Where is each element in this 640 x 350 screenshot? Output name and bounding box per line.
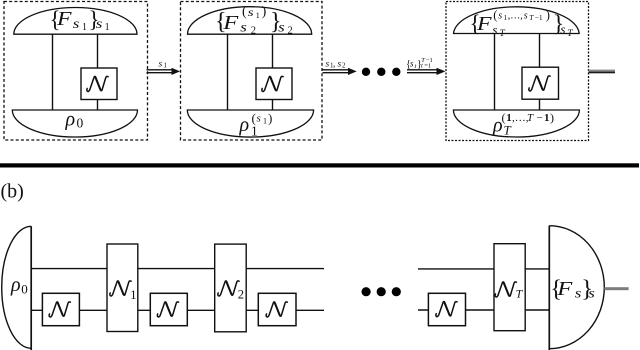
svg-text:): ) xyxy=(550,110,554,124)
label rho_0 (b) xyxy=(10,274,28,297)
svg-text:,: , xyxy=(333,59,335,69)
arrow {s_t} between dots and box3 xyxy=(406,57,446,75)
wire right lower 3 xyxy=(539,99,541,110)
instrument lens 1 (top half-ellipse) xyxy=(14,7,137,34)
channel N small 4 xyxy=(428,293,465,325)
script N label 1 xyxy=(87,76,108,91)
svg-text:s: s xyxy=(73,17,80,32)
svg-text:1: 1 xyxy=(105,22,110,33)
wire top left segment xyxy=(31,268,324,270)
svg-text:F: F xyxy=(556,278,573,300)
label rho_0 xyxy=(65,109,84,131)
arrow s1,s2 between box2 and dots xyxy=(323,59,357,75)
svg-text:): ) xyxy=(262,4,267,19)
state rho0 D-shape xyxy=(2,226,31,348)
svg-text:,…,: ,…, xyxy=(508,10,523,21)
svg-text:(: ( xyxy=(502,110,506,124)
svg-text:(: ( xyxy=(242,4,247,19)
channel box N 1 xyxy=(81,68,117,100)
svg-text:1: 1 xyxy=(256,10,260,20)
svg-text:0: 0 xyxy=(21,282,28,297)
svg-text:T: T xyxy=(567,29,573,39)
svg-text:s: s xyxy=(257,113,261,125)
classical double line out of box 3 xyxy=(589,70,616,72)
svg-text:(: ( xyxy=(493,8,497,22)
wire left 2 xyxy=(227,34,229,110)
svg-text:T: T xyxy=(504,123,512,138)
wire right upper 1 xyxy=(97,34,99,68)
svg-text:2: 2 xyxy=(288,26,293,37)
state dish 1 (bottom half-ellipse) xyxy=(12,110,137,137)
svg-text:s: s xyxy=(248,5,254,19)
channel N small 1 xyxy=(42,293,79,325)
svg-text:ρ: ρ xyxy=(65,109,76,131)
wire right upper 2 xyxy=(272,34,274,68)
script N label 2 xyxy=(262,76,283,91)
channel box N 2 xyxy=(256,68,292,100)
dots top xyxy=(362,68,370,76)
svg-text:s: s xyxy=(410,59,414,69)
arrow s1 between box1 and box2 xyxy=(147,60,181,75)
svg-text:): ) xyxy=(546,8,550,22)
wire right lower 1 xyxy=(97,99,99,110)
svg-text:T: T xyxy=(529,13,534,22)
channel N1 tall xyxy=(107,244,138,332)
wire bottom left segment xyxy=(31,309,324,311)
thick separator rule xyxy=(0,163,639,167)
svg-text:1: 1 xyxy=(251,123,258,138)
svg-text:s: s xyxy=(159,60,163,70)
svg-text:2: 2 xyxy=(251,26,256,37)
svg-text:T: T xyxy=(500,29,506,39)
svg-text:(: ( xyxy=(252,110,256,125)
svg-text:F: F xyxy=(476,13,493,35)
svg-text:T: T xyxy=(527,112,534,124)
svg-text:ρ: ρ xyxy=(10,274,21,296)
svg-text:s: s xyxy=(326,59,330,69)
svg-text:s: s xyxy=(338,59,342,69)
svg-text:0: 0 xyxy=(77,116,84,131)
svg-text:ρ: ρ xyxy=(239,114,250,136)
svg-text:s: s xyxy=(240,21,247,36)
svg-text:F: F xyxy=(56,8,73,30)
svg-text:1: 1 xyxy=(164,62,168,70)
wire left 1 xyxy=(52,34,54,110)
svg-text:s: s xyxy=(278,21,285,36)
dotted box 3 xyxy=(446,2,589,141)
wire right upper 3 xyxy=(539,34,541,68)
label {F_s1}_s1 xyxy=(50,7,110,33)
dashed box 2 xyxy=(181,2,323,141)
svg-text:−1: −1 xyxy=(535,13,543,22)
dashed box 1 xyxy=(4,2,148,141)
svg-text:1: 1 xyxy=(506,112,512,124)
svg-text:s: s xyxy=(588,287,595,302)
svg-text:−: − xyxy=(537,112,543,124)
svg-text:1: 1 xyxy=(82,22,87,33)
svg-text:2: 2 xyxy=(342,61,346,69)
svg-text:s: s xyxy=(498,10,502,21)
svg-text:=1: =1 xyxy=(424,62,431,69)
label rho_T^(1,...,T-1) xyxy=(492,110,554,137)
channel box N 3 xyxy=(522,67,559,99)
instrument lens 3 xyxy=(454,7,580,34)
wire top right segment xyxy=(418,268,549,270)
wire bottom right segment xyxy=(418,309,549,311)
label rho_1^(s1) xyxy=(239,110,273,138)
state dish 2 xyxy=(187,110,313,137)
svg-text:1: 1 xyxy=(130,288,136,302)
svg-text:F: F xyxy=(222,12,239,34)
label {F_s}_s xyxy=(550,276,595,303)
svg-text:1: 1 xyxy=(263,117,267,126)
svg-text:1: 1 xyxy=(544,112,550,124)
channel N small 2 xyxy=(150,293,187,325)
svg-text:): ) xyxy=(268,110,272,125)
svg-text:s: s xyxy=(96,17,103,32)
svg-text:s: s xyxy=(560,22,565,37)
script N label 3 xyxy=(529,76,550,91)
channel NT tall xyxy=(494,244,525,331)
svg-text:s: s xyxy=(524,10,528,21)
label {F_s2^(s1)}_s2 xyxy=(215,4,293,36)
channel N2 tall xyxy=(215,244,247,332)
measurement {F_s}_s D-shape xyxy=(549,226,604,349)
wire right lower 2 xyxy=(272,99,274,110)
instrument lens 2 xyxy=(188,7,312,35)
classical gray wire out xyxy=(604,287,628,290)
svg-text:(b): (b) xyxy=(1,181,24,203)
svg-text:2: 2 xyxy=(238,288,244,302)
wire left 3 xyxy=(494,34,496,111)
label {F_sT^(s1..sT-1)}_sT xyxy=(470,8,574,39)
dots bottom xyxy=(362,287,371,296)
channel N small 3 xyxy=(258,293,296,325)
svg-text:t: t xyxy=(421,62,423,69)
state dish 3 xyxy=(453,110,579,137)
